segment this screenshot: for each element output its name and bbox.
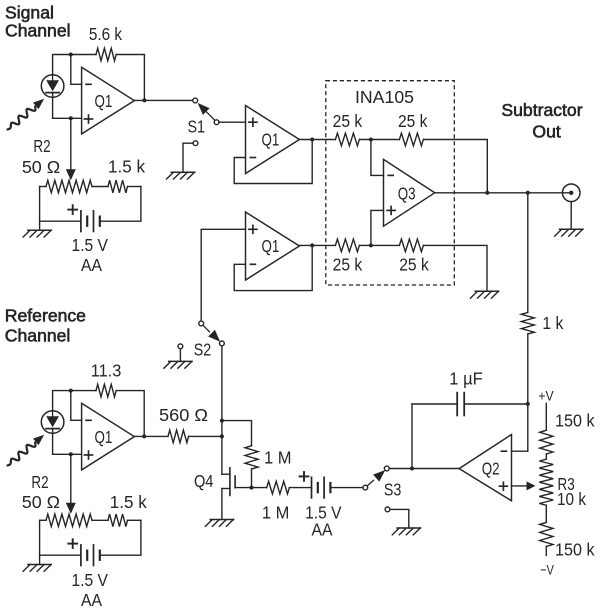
photodiode D2 (reference) <box>41 411 64 434</box>
resistor 1.5 k (signal) <box>108 180 128 193</box>
wire pot to 1.5k (reference) <box>92 519 108 521</box>
svg-text:1 µF: 1 µF <box>449 368 482 388</box>
wire S1 pole to buffer (signal) <box>219 121 246 123</box>
battery 1.5 V AA (signal) <box>81 211 100 232</box>
label 10 k <box>557 489 586 509</box>
svg-text:Q1: Q1 <box>95 427 113 447</box>
wire to Q1 inverting input (signal) <box>71 55 82 85</box>
svg-text:11.3: 11.3 <box>91 360 122 380</box>
wire output node down to 1k <box>527 193 529 313</box>
label AA (bias) <box>312 520 333 540</box>
svg-text:25 k: 25 k <box>398 111 428 131</box>
switch S1 throw contact <box>193 98 198 103</box>
svg-text:1.5 k: 1.5 k <box>110 492 147 512</box>
resistor 25 k (top left) <box>335 133 359 146</box>
svg-text:Reference: Reference <box>5 306 86 326</box>
node capacitor right junction <box>526 402 530 406</box>
resistor 25 k (top right) <box>399 133 423 146</box>
wire photodiode top to R1 (signal) <box>53 55 96 75</box>
label 1 k <box>542 313 563 333</box>
wire +V to 150k <box>545 403 547 430</box>
label 25 k (bottom left) <box>333 255 363 275</box>
wire 1M to battery <box>289 487 311 489</box>
plus sign battery (reference) <box>68 539 77 548</box>
op-amp Q1 (lower buffer) <box>246 212 300 280</box>
switch S2 throw contact <box>199 321 204 326</box>
resistor 150 k (lower) <box>540 522 553 546</box>
node Q2 output junction <box>410 467 414 471</box>
wire Q1 noninverting input (reference) <box>53 453 82 455</box>
svg-text:Channel: Channel <box>5 20 71 40</box>
minus sign Q3 <box>388 174 393 176</box>
svg-text:10 k: 10 k <box>557 489 586 509</box>
wire 1k to cap junction <box>527 334 529 451</box>
minus sign Q2 <box>501 450 506 452</box>
label Q1 (lower buffer) <box>262 236 280 256</box>
switch S1 ground throw contact <box>193 141 198 146</box>
minus sign Q1 reference <box>86 419 91 421</box>
label Q1 (reference) <box>95 427 113 447</box>
op-amp Q1 (reference channel) <box>82 403 135 470</box>
svg-text:Out: Out <box>532 121 560 141</box>
svg-text:25 k: 25 k <box>333 255 363 275</box>
wire R2 wiper (signal) <box>70 118 72 170</box>
label 1 uF <box>449 368 482 388</box>
wire R2 wiper (reference) <box>70 454 72 503</box>
wiper arrow R2 (signal) <box>66 169 76 180</box>
svg-text:Q1: Q1 <box>262 130 280 150</box>
wire upper buffer feedback <box>234 140 312 184</box>
label Reference Channel heading <box>5 306 86 346</box>
resistor 11.3 (reference feedback) <box>96 384 116 397</box>
wire to battery plus (reference) <box>40 554 81 556</box>
label S2 <box>194 339 212 359</box>
wire 1M to gate node <box>251 469 253 488</box>
switch S3 arm <box>367 470 385 486</box>
wire photodiode bottom (signal) <box>52 93 54 119</box>
ground S2 <box>164 361 192 368</box>
svg-text:1 M: 1 M <box>264 447 292 467</box>
wire Q2 output <box>389 468 459 470</box>
node reference inverting junction <box>69 389 73 393</box>
svg-text:1 k: 1 k <box>542 313 563 333</box>
resistor R1 5.6 k (signal feedback) <box>96 48 116 61</box>
wire Q2 noninverting input <box>512 485 527 487</box>
light arrow into D2 (reference) <box>8 435 45 466</box>
svg-text:AA: AA <box>312 520 333 540</box>
ground battery (signal) <box>23 230 51 237</box>
plus sign upper buffer <box>249 118 257 126</box>
output terminal Subtractor Out <box>562 184 580 202</box>
switch S2 arm <box>203 325 220 342</box>
wire Q3 noninverting input <box>371 210 384 245</box>
label Q4 <box>194 471 214 491</box>
label 1.5 V (reference) <box>72 570 109 590</box>
wire S2 pole down to Q4 <box>221 346 223 474</box>
wire 150k to R3 <box>545 454 547 459</box>
svg-text:AA: AA <box>81 590 102 609</box>
svg-text:1.5 k: 1.5 k <box>108 156 145 176</box>
wire pot left lead (reference) <box>40 519 46 521</box>
wire S1 ground throw <box>183 143 193 172</box>
node 560 ohm junction <box>220 434 224 438</box>
label INA105 <box>355 87 414 107</box>
svg-text:Signal: Signal <box>5 2 54 22</box>
switch S1 arm <box>198 103 215 121</box>
svg-text:Q1: Q1 <box>95 91 113 111</box>
wire photodiode bottom (reference) <box>52 429 54 455</box>
svg-text:Q2: Q2 <box>482 459 500 479</box>
wire R3 to lower 150k <box>545 505 547 522</box>
resistor 1 M (series) <box>267 481 290 494</box>
wire Q1 output to S1 (signal) <box>134 99 192 101</box>
ground Q4 <box>205 520 233 527</box>
ground S1 <box>167 172 195 179</box>
minus sign lower buffer <box>250 263 255 265</box>
label 1.5 V (signal) <box>72 235 109 255</box>
wire cap left to Q2 output <box>411 404 413 469</box>
wire Q4 source to ground <box>221 489 223 520</box>
svg-text:R2: R2 <box>31 472 48 492</box>
transistor Q4 <box>222 468 252 496</box>
label 1.5 k (reference) <box>110 492 147 512</box>
plus sign battery (bias) <box>300 472 309 481</box>
label Q1 (signal) <box>95 91 113 111</box>
switch S3 pole contact <box>363 485 368 490</box>
wire 1.5k to loop corner (signal) <box>128 186 141 188</box>
node signal inverting junction <box>69 53 73 57</box>
svg-text:S3: S3 <box>384 479 402 499</box>
photodiode D1 (signal) <box>41 75 64 98</box>
wire Q3 output <box>435 192 572 194</box>
wire to 1M pullup <box>222 421 252 446</box>
wire top right 25k to output <box>423 140 487 193</box>
label 25 k (top left) <box>333 111 363 131</box>
svg-text:150 k: 150 k <box>555 410 595 430</box>
node upper buffer output <box>310 138 314 142</box>
svg-text:Q4: Q4 <box>194 471 214 491</box>
wire lower buffer noninverting input <box>201 229 245 321</box>
label R2 (signal) <box>33 136 50 156</box>
label +V <box>538 389 554 405</box>
node top row middle <box>369 138 373 142</box>
label 25 k (bottom right) <box>399 255 429 275</box>
node bottom row middle <box>369 243 373 247</box>
wire bottom right 25k to ground <box>423 245 487 291</box>
svg-text:AA: AA <box>81 255 102 275</box>
battery 1.5 V AA (reference) <box>81 545 100 566</box>
resistor 25 k (bottom left) <box>335 239 359 252</box>
label S1 <box>187 117 205 137</box>
label 5.6 k <box>89 24 122 44</box>
label 25 k (top right) <box>398 111 428 131</box>
node signal noninverting junction <box>69 116 73 120</box>
svg-text:+V: +V <box>538 389 554 405</box>
wire 1.5k to loop corner (reference) <box>128 519 141 521</box>
label S3 <box>384 479 402 499</box>
wire loop right side (signal) <box>100 187 141 222</box>
resistor 1 M (vertical) <box>245 446 258 469</box>
ground INA105 reference <box>471 291 499 298</box>
switch S3 throw contact <box>384 466 389 471</box>
wire photodiode top to R1 (reference) <box>53 391 96 411</box>
label 1 M (vertical) <box>264 447 292 467</box>
wire lower buffer output <box>299 244 335 246</box>
ground output terminal <box>555 229 583 236</box>
svg-text:1.5 V: 1.5 V <box>72 235 109 255</box>
label Signal Channel heading <box>5 2 71 40</box>
node lower buffer output <box>310 243 314 247</box>
svg-text:−V: −V <box>540 563 554 579</box>
label 50 ohm (reference) <box>22 492 60 512</box>
label 1 M (series) <box>262 502 290 522</box>
wire 11.3 to feedback corner <box>116 391 144 437</box>
svg-text:Subtractor: Subtractor <box>501 100 582 120</box>
label Q2 <box>482 459 500 479</box>
wire battery to S3 pole <box>330 487 363 489</box>
minus sign upper buffer <box>250 157 255 159</box>
wire to battery plus (signal) <box>40 220 81 222</box>
wire 560 ohm to S2 pole line <box>189 435 222 437</box>
label 11.3 <box>91 360 122 380</box>
svg-text:5.6 k: 5.6 k <box>89 24 122 44</box>
node 1M branch junction <box>220 419 224 423</box>
battery 1.5 V AA (bias) <box>312 477 331 498</box>
svg-text:INA105: INA105 <box>355 87 414 107</box>
ground S3 <box>392 528 420 535</box>
label 50 ohm (signal) <box>22 157 60 177</box>
label 1.5 V (bias) <box>305 502 342 522</box>
svg-text:25 k: 25 k <box>333 111 363 131</box>
plus sign Q1 signal <box>85 115 93 123</box>
resistor 1.5 k (reference) <box>108 514 128 527</box>
wire loop left side (signal) <box>39 187 41 231</box>
svg-text:Q1: Q1 <box>262 236 280 256</box>
wire between top 25k <box>359 139 399 141</box>
label 560 ohm <box>159 405 208 425</box>
potentiometer R2 50 ohm (signal) <box>46 180 92 192</box>
label R2 (reference) <box>31 472 48 492</box>
plus sign Q3 <box>387 206 395 214</box>
wire loop left side (reference) <box>39 520 41 564</box>
label 150 k (lower) <box>555 540 595 560</box>
switch S2 pole contact <box>220 341 225 346</box>
svg-text:S1: S1 <box>187 117 205 137</box>
label -V <box>540 563 554 579</box>
wire 150k to -V <box>545 547 547 556</box>
light arrow into D1 (signal) <box>8 99 45 130</box>
wire S3 ground throw <box>390 509 409 528</box>
ground battery (reference) <box>23 565 51 572</box>
switch S1 pole contact <box>214 120 219 125</box>
wire pot to 1.5k (signal) <box>92 186 108 188</box>
node output 1k junction <box>526 191 530 195</box>
wire pot left lead (signal) <box>40 186 46 188</box>
label Q3 <box>398 183 416 203</box>
op-amp Q1 (upper buffer) <box>246 106 300 174</box>
node reference noninverting junction <box>69 452 73 456</box>
svg-text:Channel: Channel <box>5 326 71 346</box>
resistor 150 k (upper) <box>540 430 553 454</box>
wire upper buffer output <box>299 139 335 141</box>
switch S2 ground throw contact <box>178 344 183 349</box>
switch S3 ground throw contact <box>385 507 390 512</box>
svg-text:1.5 V: 1.5 V <box>72 570 109 590</box>
svg-text:1 M: 1 M <box>262 502 290 522</box>
capacitor 1 uF <box>412 393 528 416</box>
node Q1 output feedback junction (reference) <box>142 434 146 438</box>
label R3 <box>558 474 575 494</box>
label Q1 (upper buffer) <box>262 130 280 150</box>
label AA (signal) <box>81 255 102 275</box>
wire loop right side (reference) <box>100 520 141 555</box>
wire Q1 output to 560 ohm <box>134 435 168 437</box>
svg-text:560 Ω: 560 Ω <box>159 405 208 425</box>
potentiometer R3 10 k <box>539 459 553 505</box>
node output feedback junction <box>485 191 489 195</box>
op-amp Q2 <box>459 435 511 501</box>
wire between bottom 25k <box>359 244 399 246</box>
resistor 560 ohm <box>168 430 189 443</box>
wire Q3 inverting input <box>371 140 384 176</box>
wire gate node to 1M <box>252 487 267 489</box>
svg-text:50 Ω: 50 Ω <box>22 492 60 512</box>
svg-text:25 k: 25 k <box>399 255 429 275</box>
wire to Q2 inverting input <box>512 450 528 452</box>
potentiometer R2 50 ohm (reference) <box>46 514 92 526</box>
wire to Q1 inverting input (reference) <box>71 391 82 421</box>
wiper arrow R2 (reference) <box>66 503 76 514</box>
plus sign Q1 reference <box>85 451 93 459</box>
svg-text:150 k: 150 k <box>555 540 595 560</box>
svg-text:50 Ω: 50 Ω <box>22 157 60 177</box>
label 1.5 k (signal) <box>108 156 145 176</box>
svg-text:S2: S2 <box>194 339 212 359</box>
node Q1 output feedback junction <box>142 98 146 102</box>
resistor 25 k (bottom right) <box>399 239 423 252</box>
node Q4 gate junction <box>250 486 254 490</box>
INA105 dashed boundary <box>326 81 455 285</box>
wire Q1 noninverting input (signal) <box>53 117 82 119</box>
minus sign Q1 signal <box>86 83 91 85</box>
wire S2 ground throw <box>179 349 181 362</box>
wire terminal to ground <box>570 202 572 230</box>
resistor 1 k <box>521 313 534 335</box>
op-amp Q1 (signal channel) <box>82 67 135 134</box>
plus sign battery (signal) <box>68 205 77 214</box>
wire R1 to feedback corner <box>116 55 144 101</box>
op-amp Q3 <box>384 159 435 226</box>
svg-text:Q3: Q3 <box>398 183 416 203</box>
plus sign Q2 <box>499 482 507 490</box>
wiper arrow R3 <box>527 481 536 490</box>
wire lower buffer feedback <box>234 245 312 290</box>
svg-text:R2: R2 <box>33 136 50 156</box>
label 150 k (upper) <box>555 410 595 430</box>
label AA (reference) <box>81 590 102 609</box>
plus sign lower buffer <box>249 225 257 233</box>
label Subtractor Out heading <box>501 100 582 141</box>
